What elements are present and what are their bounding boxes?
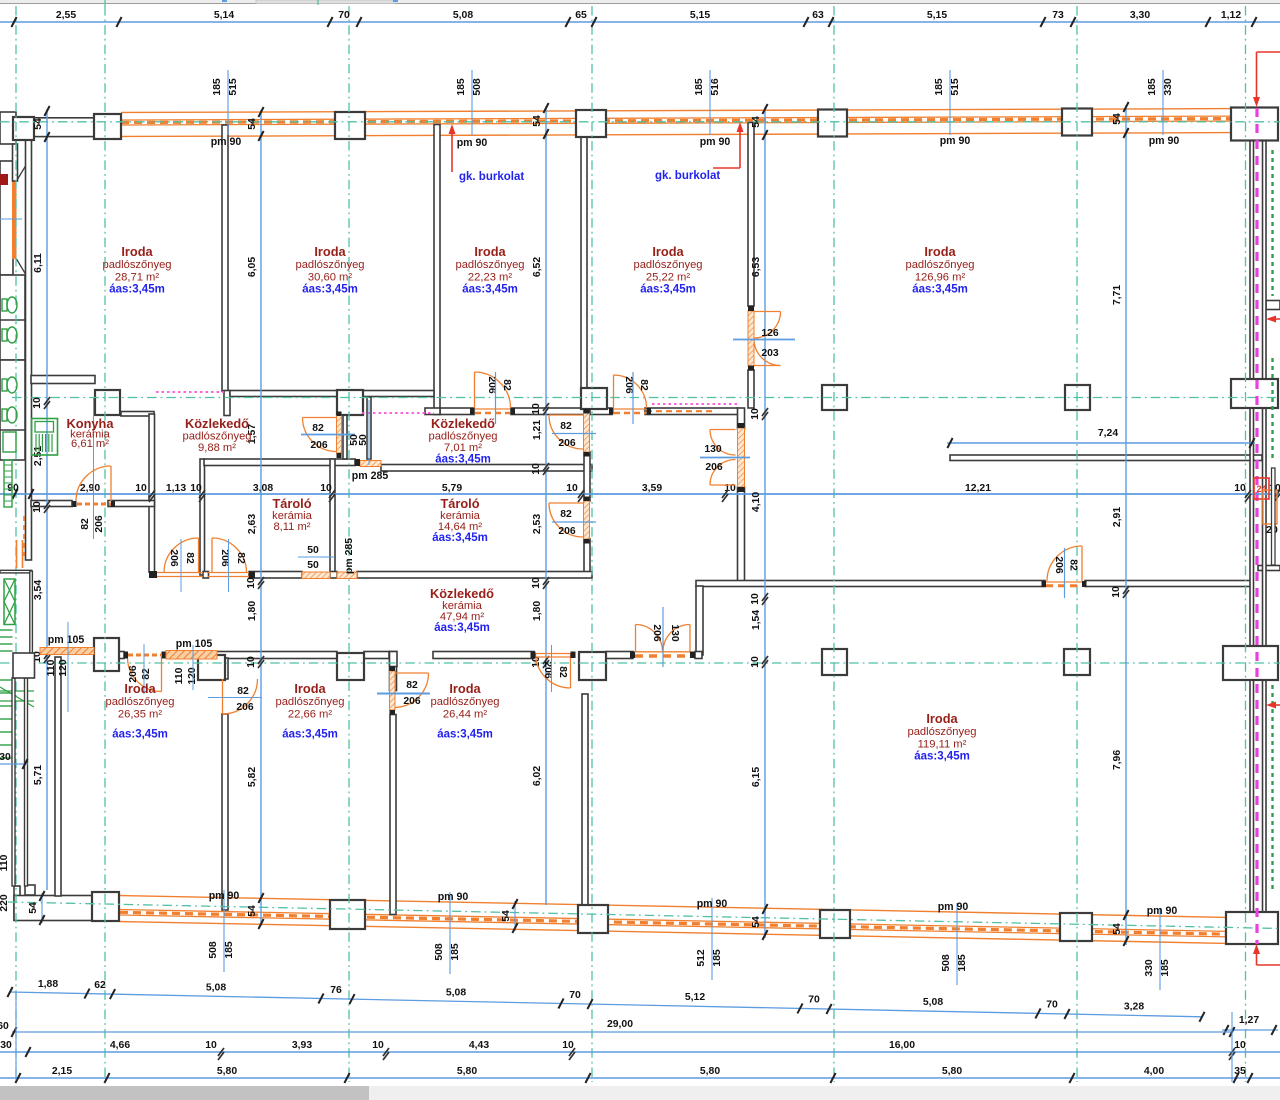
wall konyha bottom a [31, 501, 72, 507]
svg-text:5,12: 5,12 [685, 992, 705, 1003]
svg-text:1,13: 1,13 [166, 483, 186, 494]
wall iroda2|3 [434, 125, 440, 415]
wall corridor47 south b [364, 652, 389, 659]
svg-text:508: 508 [208, 941, 219, 959]
chain3 wall tick x=221 [218, 1048, 224, 1056]
exterior wall top (orange) [121, 109, 1231, 113]
svg-text:206: 206 [623, 376, 634, 394]
middle chain wall tick x=202 [199, 490, 205, 498]
wall right edge stub y301 [1266, 301, 1280, 310]
svg-text:3,08: 3,08 [253, 483, 273, 494]
svg-text:203: 203 [761, 348, 779, 359]
svg-text:206: 206 [558, 526, 576, 537]
svg-text:pm 90: pm 90 [1147, 905, 1178, 917]
svg-text:206: 206 [168, 549, 179, 567]
svg-text:Közlekedő: Közlekedő [185, 416, 249, 431]
svg-text:82: 82 [501, 379, 512, 391]
wall shaft left [343, 397, 347, 459]
svg-text:1,27: 1,27 [1239, 1015, 1259, 1026]
wall corridor47 south a [216, 652, 337, 659]
svg-text:22,23 m²: 22,23 m² [468, 271, 512, 283]
middle chain wall tick x=332 [329, 490, 335, 498]
svg-text:63: 63 [812, 10, 824, 21]
red arrow right mid2 [1272, 704, 1280, 706]
door corridor47 double (130) [636, 625, 663, 652]
svg-text:áas:3,45m: áas:3,45m [434, 622, 490, 634]
middle chain wall tick x=581 [578, 490, 584, 498]
svg-text:2,55: 2,55 [56, 10, 76, 21]
column top wall corner col [1231, 108, 1278, 141]
svg-text:5,80: 5,80 [700, 1066, 720, 1077]
svg-text:29,00: 29,00 [607, 1019, 633, 1030]
svg-text:Tároló: Tároló [272, 496, 311, 511]
svg-text:5,08: 5,08 [206, 982, 226, 993]
svg-text:512: 512 [696, 949, 707, 967]
wall corridor47 south e [695, 652, 702, 659]
bottom gray bar [0, 1086, 1280, 1100]
svg-text:áas:3,45m: áas:3,45m [462, 284, 518, 296]
svg-text:10: 10 [750, 408, 761, 420]
wall corridor top d [511, 408, 612, 415]
svg-text:7,24: 7,24 [1098, 428, 1118, 439]
svg-text:185: 185 [934, 78, 945, 96]
column top wall c1 [94, 114, 121, 139]
wall corridor top e [645, 408, 738, 415]
wall taroló14 top b [381, 465, 592, 472]
svg-text:pm 90: pm 90 [940, 135, 971, 147]
column mid1 c4 [822, 385, 847, 410]
door konyha (82/206) [76, 466, 111, 501]
wall iroda4|5 lower [748, 370, 754, 408]
wc toilet 4 [2, 409, 7, 421]
svg-text:áas:3,45m: áas:3,45m [437, 729, 493, 741]
shaft2 sill [302, 572, 330, 579]
svg-text:9,88 m²: 9,88 m² [198, 442, 236, 454]
wall iroda3|4 [581, 124, 587, 396]
svg-text:26,44 m²: 26,44 m² [443, 708, 487, 720]
column bottom wall c3 [578, 905, 608, 933]
svg-text:54: 54 [501, 910, 512, 922]
svg-text:5,08: 5,08 [923, 997, 943, 1008]
svg-text:206: 206 [558, 438, 576, 449]
wall taroló14 right [584, 402, 590, 413]
svg-text:185: 185 [1147, 78, 1158, 96]
column mid2 c2 [337, 653, 364, 680]
exterior wall bottom (orange) [120, 896, 1227, 918]
svg-text:5,14: 5,14 [214, 10, 234, 21]
svg-text:áas:3,45m: áas:3,45m [302, 284, 358, 296]
svg-text:Tároló: Tároló [440, 496, 479, 511]
wall corridor top c [440, 408, 474, 415]
column mid1 c2 [337, 390, 363, 415]
svg-text:70: 70 [1046, 1000, 1058, 1011]
svg-text:1,80: 1,80 [247, 601, 258, 621]
wall right y455 [950, 455, 1262, 461]
svg-text:10: 10 [562, 1040, 574, 1051]
column mid1 c1 [95, 390, 120, 415]
svg-text:185: 185 [224, 941, 235, 959]
door pm105 right hatch [166, 651, 217, 660]
red arrow top right [1256, 52, 1258, 100]
svg-text:5,15: 5,15 [927, 10, 947, 21]
svg-text:3,59: 3,59 [642, 483, 662, 494]
svg-text:54: 54 [33, 118, 44, 130]
middle chain wall tick x=152 [149, 490, 155, 498]
wall x737 vertical [738, 408, 745, 429]
dim 7,24 line [947, 442, 1255, 444]
svg-text:6,52: 6,52 [532, 257, 543, 277]
svg-text:6,02: 6,02 [532, 766, 543, 786]
svg-text:508: 508 [434, 943, 445, 961]
svg-text:10: 10 [32, 501, 43, 513]
svg-text:30,60 m²: 30,60 m² [308, 271, 352, 283]
svg-text:110: 110 [46, 659, 57, 676]
svg-text:16,00: 16,00 [889, 1040, 915, 1051]
svg-text:130: 130 [704, 444, 722, 455]
svg-text:82: 82 [312, 423, 324, 434]
middle chain wall tick x=725 [722, 490, 728, 498]
bottom chain 3 [0, 1051, 1280, 1053]
svg-text:pm 90: pm 90 [938, 901, 969, 913]
red symbol right [1254, 478, 1269, 499]
svg-text:10: 10 [320, 483, 332, 494]
stair treads [0, 629, 13, 631]
svg-text:82: 82 [1068, 559, 1079, 571]
svg-text:pm 105: pm 105 [48, 634, 85, 646]
wall top-left stub [0, 112, 16, 144]
door corridor7 right (82/206) [549, 415, 583, 449]
svg-text:padlószőnyeg: padlószőnyeg [430, 696, 499, 708]
svg-text:10: 10 [531, 577, 542, 589]
svg-text:82: 82 [406, 680, 418, 691]
svg-text:4,43: 4,43 [469, 1040, 489, 1051]
top dimension chain [0, 21, 1280, 23]
svg-text:pm 90: pm 90 [1149, 135, 1180, 147]
stair walls [0, 570, 32, 573]
svg-text:áas:3,45m: áas:3,45m [912, 284, 968, 296]
top wall dim x=228 [227, 70, 229, 135]
green riser bar [4, 460, 12, 507]
svg-text:54: 54 [751, 116, 762, 128]
bottom wall dim x=224 [223, 890, 225, 972]
svg-text:padlószőnyeg: padlószőnyeg [295, 259, 364, 271]
grid axis vertical x=834 [833, 6, 835, 1082]
left small dim line [0, 218, 22, 220]
svg-text:pm 285: pm 285 [343, 538, 355, 574]
svg-text:gk. burkolat: gk. burkolat [655, 170, 720, 182]
svg-text:206: 206 [310, 440, 328, 451]
svg-text:126: 126 [761, 328, 779, 339]
svg-text:1,80: 1,80 [532, 601, 543, 621]
svg-text:padlószőnyeg: padlószőnyeg [907, 726, 976, 738]
svg-text:54: 54 [532, 115, 543, 127]
top wall dim x=472 [471, 70, 473, 135]
svg-text:185: 185 [694, 78, 705, 96]
door iroda22,23 (82/206) [475, 372, 511, 408]
svg-text:10: 10 [531, 403, 542, 415]
svg-text:padlószőnyeg: padlószőnyeg [275, 696, 344, 708]
door iroda126 (126/203) [754, 312, 781, 339]
svg-text:54: 54 [247, 118, 258, 130]
svg-text:22,66 m²: 22,66 m² [288, 708, 332, 720]
door iroda25,22 (82/206) [614, 375, 647, 408]
svg-text:515: 515 [228, 78, 239, 96]
svg-text:Közlekedő: Közlekedő [430, 586, 494, 601]
svg-text:30: 30 [0, 1040, 12, 1051]
svg-text:gk. burkolat: gk. burkolat [459, 171, 524, 183]
bottom wall dim x=712 [711, 898, 713, 980]
svg-text:54: 54 [1112, 113, 1123, 125]
grid axis vertical x=592 [591, 6, 593, 1082]
svg-text:4,00: 4,00 [1144, 1066, 1164, 1077]
svg-text:73: 73 [1052, 10, 1064, 21]
wall taroло left [200, 459, 205, 575]
svg-text:185: 185 [456, 78, 467, 96]
svg-text:5,08: 5,08 [446, 987, 466, 998]
top wall dim x=950 [949, 70, 951, 135]
svg-text:82: 82 [557, 666, 568, 678]
green dotted right c [1271, 685, 1273, 890]
wall bottom-left segment [14, 896, 92, 921]
svg-text:pm 285: pm 285 [352, 470, 389, 482]
wall konyha top [31, 376, 95, 384]
svg-text:áas:3,45m: áas:3,45m [640, 284, 696, 296]
svg-text:82: 82 [235, 552, 246, 564]
svg-text:54: 54 [247, 905, 258, 917]
column mid2 c0 [94, 638, 119, 671]
vertical dim line x=765 [764, 107, 766, 938]
svg-text:5,79: 5,79 [442, 483, 462, 494]
grid axis horizontal mid1 [12, 397, 1280, 399]
vertical dim line x=546 [545, 106, 547, 905]
svg-text:185: 185 [957, 954, 968, 972]
chain3 wall tick x=572 [569, 1048, 575, 1056]
green dotted right b [1271, 358, 1273, 458]
column mid2 right col [1223, 646, 1278, 680]
red fixture mark left [0, 174, 8, 185]
chain3 wall tick x=386 [383, 1048, 389, 1056]
svg-text:50: 50 [307, 560, 319, 571]
svg-text:Iroda: Iroda [121, 244, 153, 259]
door y583 (82/206) [1047, 546, 1082, 581]
dim 54 standalone left-bottom [41, 893, 43, 923]
wall konyha bottom b [108, 501, 155, 507]
column mid1 right col [1231, 379, 1278, 408]
svg-text:10: 10 [531, 463, 542, 475]
wall corridor47 south c [433, 652, 534, 659]
svg-text:130: 130 [669, 624, 680, 642]
column bottom wall c1 [92, 892, 119, 921]
svg-text:3,30: 3,30 [1130, 10, 1150, 21]
svg-text:54: 54 [1112, 923, 1123, 935]
svg-text:25,22 m²: 25,22 m² [646, 271, 690, 283]
svg-text:10: 10 [246, 656, 257, 668]
wall corridor47 south d [606, 652, 633, 659]
svg-text:60: 60 [0, 1021, 9, 1032]
svg-text:pm 90: pm 90 [438, 891, 469, 903]
stair lift shaft [4, 579, 15, 625]
svg-text:2,63: 2,63 [247, 514, 258, 534]
pm285 sill bottom [337, 572, 357, 579]
grid axis horizontal mid2 [0, 662, 1280, 664]
door 130/206 double [710, 430, 736, 456]
column top wall c2 [335, 112, 365, 139]
wall left vertical [26, 139, 32, 560]
chain3 wall tick x=1232 [1229, 1048, 1235, 1056]
grid axis horizontal top [0, 121, 1280, 123]
vertical dim line x=261 [260, 110, 262, 926]
magenta dashed shaft line [1255, 108, 1258, 944]
svg-text:110: 110 [174, 667, 185, 684]
svg-text:pm 90: pm 90 [209, 890, 240, 902]
wc toilet 2 [2, 329, 7, 341]
svg-text:1,21: 1,21 [532, 420, 543, 440]
svg-text:3,93: 3,93 [292, 1040, 312, 1051]
svg-text:padlószőnyeg: padlószőnyeg [633, 259, 702, 271]
wall right pair A [1250, 140, 1254, 380]
svg-text:185: 185 [450, 943, 461, 961]
svg-text:áas:3,45m: áas:3,45m [109, 284, 165, 296]
bottom chain 4 [0, 1077, 1280, 1079]
svg-text:82: 82 [141, 668, 152, 680]
svg-text:82: 82 [184, 552, 195, 564]
svg-text:206: 206 [403, 696, 421, 707]
svg-text:508: 508 [472, 78, 483, 96]
svg-text:10: 10 [566, 483, 578, 494]
svg-text:5,80: 5,80 [457, 1066, 477, 1077]
wall corridor top a [224, 391, 230, 416]
chain left connector [15, 992, 17, 1080]
red arrow right mid1 [1272, 318, 1280, 320]
orange dashed riser [23, 516, 25, 556]
svg-text:padlószőnyeg: padlószőnyeg [428, 431, 497, 443]
chain 1,27 segment [1222, 1029, 1278, 1031]
door corridor9 (82/206) [303, 418, 337, 452]
wc toilet 1 [2, 299, 7, 311]
door stair (82/206) [128, 658, 162, 692]
column mid2 c1 [198, 655, 225, 680]
wall bottom iroda D|E [582, 694, 588, 918]
svg-text:206: 206 [1053, 556, 1064, 574]
wall iroda4|5 upper [748, 123, 754, 307]
svg-text:2,90: 2,90 [80, 483, 100, 494]
svg-text:padlószőnyeg: padlószőnyeg [455, 259, 524, 271]
middle chain wall tick x=1277 [1274, 490, 1280, 498]
svg-text:10: 10 [750, 656, 761, 668]
svg-text:206: 206 [94, 515, 105, 533]
dim 54 standalone mid-bottom [514, 901, 516, 931]
svg-text:82: 82 [560, 509, 572, 520]
svg-text:330: 330 [1163, 78, 1174, 96]
svg-text:5,15: 5,15 [690, 10, 710, 21]
door iroda C|D (82/206) [394, 673, 429, 708]
svg-text:126,96 m²: 126,96 m² [915, 271, 966, 283]
svg-text:70: 70 [569, 990, 581, 1001]
svg-text:10: 10 [372, 1040, 384, 1051]
svg-text:1,88: 1,88 [38, 979, 58, 990]
svg-text:185: 185 [1160, 959, 1171, 977]
top wall dim x=710 [709, 70, 711, 135]
wall right edge stub y566 [1258, 566, 1280, 571]
wall iroda1|2 [222, 125, 228, 391]
svg-text:206: 206 [651, 624, 662, 642]
svg-text:Iroda: Iroda [926, 711, 958, 726]
wall corridor47 north [203, 572, 209, 579]
svg-text:1,54: 1,54 [751, 610, 762, 630]
vertical dim line x=1126 [1125, 105, 1127, 945]
middle chain wall tick x=1248 [1245, 490, 1251, 498]
svg-text:Közlekedő: Közlekedő [431, 416, 495, 431]
middle dimension chain [0, 493, 1280, 495]
red arrow gk1 [451, 130, 453, 172]
door strip up (82/206) [164, 538, 199, 573]
svg-text:padlószőnyeg: padlószőnyeg [182, 431, 251, 443]
svg-text:padlószőnyeg: padlószőnyeg [905, 259, 974, 271]
svg-text:áas:3,45m: áas:3,45m [282, 729, 338, 741]
svg-text:10: 10 [246, 577, 257, 589]
door taroló8 up (82/206) [212, 538, 247, 573]
svg-text:7,71: 7,71 [1112, 285, 1123, 305]
svg-text:6,05: 6,05 [247, 257, 258, 277]
wall konyha right [149, 414, 155, 572]
wall bottom iroda C|D [390, 652, 398, 667]
svg-text:pm 90: pm 90 [211, 136, 242, 148]
svg-text:6,11: 6,11 [33, 253, 44, 273]
svg-text:24: 24 [1256, 484, 1266, 494]
svg-text:70: 70 [808, 995, 820, 1006]
svg-text:50: 50 [358, 434, 369, 446]
column top wall c3 [576, 110, 606, 137]
svg-text:54: 54 [28, 902, 39, 914]
svg-text:28,71 m²: 28,71 m² [115, 271, 159, 283]
svg-text:185: 185 [712, 949, 723, 967]
svg-text:2,91: 2,91 [1112, 507, 1123, 527]
svg-text:120: 120 [58, 659, 69, 677]
svg-text:220: 220 [0, 894, 10, 912]
grid axis vertical x=1077 [1076, 6, 1078, 1082]
svg-text:206: 206 [236, 702, 254, 713]
svg-text:padlószőnyeg: padlószőnyeg [105, 696, 174, 708]
wall y583 right long [696, 581, 1045, 587]
orange sq right [1263, 490, 1277, 524]
column mid2 c4 [822, 649, 847, 675]
svg-text:70: 70 [338, 10, 350, 21]
svg-text:áas:3,45m: áas:3,45m [914, 751, 970, 763]
svg-text:185: 185 [212, 78, 223, 96]
orange riser pair [16, 540, 18, 568]
grid axis vertical x=16 [15, 6, 17, 1082]
wall konyha ledge [121, 412, 154, 417]
column bottom wall corner col [1226, 912, 1278, 944]
svg-text:76: 76 [330, 985, 342, 996]
svg-text:82: 82 [560, 421, 572, 432]
svg-text:Iroda: Iroda [449, 681, 481, 696]
top gray bar [0, 0, 1280, 4]
svg-text:515: 515 [950, 78, 961, 96]
wall bottom iroda A|B [55, 657, 61, 896]
chain right connector [1231, 1012, 1233, 1082]
wall right pair B [1263, 140, 1267, 380]
column top wall c0 [13, 117, 34, 140]
svg-text:pm 90: pm 90 [457, 137, 488, 149]
svg-text:119,11 m²: 119,11 m² [918, 738, 967, 750]
red arrow bottom right [1256, 950, 1258, 965]
svg-text:áas:3,45m: áas:3,45m [432, 532, 488, 544]
svg-text:5,80: 5,80 [217, 1066, 237, 1077]
svg-text:4,66: 4,66 [110, 1040, 130, 1051]
svg-text:pm 105: pm 105 [176, 638, 213, 650]
svg-text:pm 90: pm 90 [697, 898, 728, 910]
